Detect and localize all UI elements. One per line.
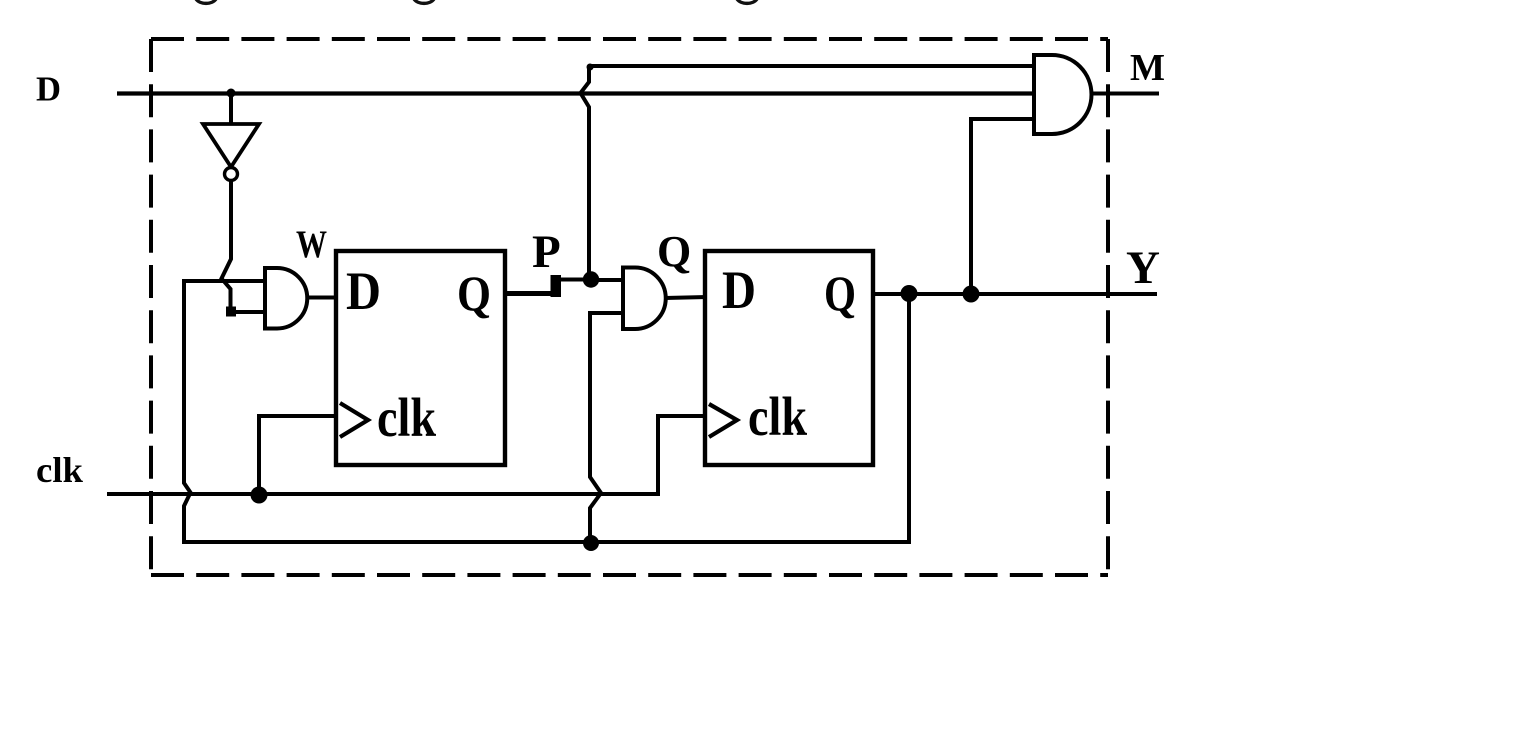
wire: D line to inverter stub xyxy=(229,93,233,124)
wire: G2 output to FF2 D input xyxy=(665,297,707,298)
flip-flop FF1 box xyxy=(336,251,505,465)
svg-text:D: D xyxy=(36,70,61,109)
AND gate G2 (output to FF2 D) xyxy=(623,268,666,330)
svg-text:P: P xyxy=(532,226,561,278)
wire: Y up to AND gate G3 bottom input xyxy=(971,119,1036,294)
svg-text:clk: clk xyxy=(748,386,807,447)
dashed enclosure border: bottom edge xyxy=(151,573,1108,577)
wire: FF1 Q output segment xyxy=(505,291,556,296)
wire: G2 bottom input from feedback line (hops over clk line) xyxy=(590,313,624,540)
wire: feedback from Y down, across bottom, up to G1 top input (hops over clk line) xyxy=(184,281,909,542)
svg-text:M: M xyxy=(1130,47,1165,89)
wire: G3 output M line xyxy=(1091,92,1159,96)
dashed enclosure border: right edge xyxy=(1106,39,1110,575)
wire: clk input line with rise to FF2 clk pin xyxy=(107,416,707,494)
node: corner blob at top of P riser xyxy=(587,64,594,71)
wire: Y output line from FF2 Q xyxy=(873,292,1157,296)
wire: node P up to AND gate G3 top input (hops over D line) xyxy=(581,66,1037,280)
node: Y junction dot to G3 bottom input xyxy=(963,286,980,303)
node P junction dot xyxy=(583,271,599,287)
node: feedback junction dot xyxy=(583,535,599,551)
wire: clk branch up to FF1 clk pin xyxy=(259,416,338,497)
svg-text:D: D xyxy=(346,261,381,321)
inverter U1 (NOT gate triangle) xyxy=(203,124,259,167)
AND gate G3 (3-input, output M) xyxy=(1034,55,1091,134)
wire: G1 top input horizontal xyxy=(182,279,265,283)
svg-text:D: D xyxy=(722,260,756,320)
wire: step riser of FF1 Q output xyxy=(551,275,562,297)
inverter U1 output bubble xyxy=(225,168,238,181)
node: clk junction dot at FF1 branch xyxy=(251,487,268,504)
svg-text:clk: clk xyxy=(377,387,436,448)
node: corner blob at inverter wire bend xyxy=(226,307,236,317)
wire: G1 output to FF1 D input xyxy=(307,296,338,300)
cropped caption glyph 3 xyxy=(737,0,757,3)
flip-flop FF2 box xyxy=(705,251,873,465)
dashed enclosure border: left edge xyxy=(149,39,153,575)
FF2 clock edge symbol xyxy=(709,404,737,437)
cropped caption glyph 2 xyxy=(414,0,434,3)
svg-text:Y: Y xyxy=(1126,242,1160,294)
svg-text:clk: clk xyxy=(36,450,83,490)
node: junction dot on D line xyxy=(227,89,236,98)
svg-text:Q: Q xyxy=(657,227,691,276)
wire: inverter output down with hop over G1 top-input wire xyxy=(222,180,264,312)
FF1 clock edge symbol xyxy=(340,403,368,437)
svg-text:Q: Q xyxy=(824,265,856,321)
dashed enclosure border: top edge xyxy=(151,37,1108,41)
wire: stepped segment to node P xyxy=(556,278,588,282)
wire: P node to G2 top input xyxy=(590,278,624,282)
cropped caption glyph 1 xyxy=(196,0,216,3)
svg-text:Q: Q xyxy=(457,265,491,321)
svg-text:W: W xyxy=(296,223,327,266)
AND gate G1 (output W) xyxy=(265,268,307,329)
wire: D input line xyxy=(117,91,1036,95)
node: Y junction dot to feedback xyxy=(901,285,918,302)
